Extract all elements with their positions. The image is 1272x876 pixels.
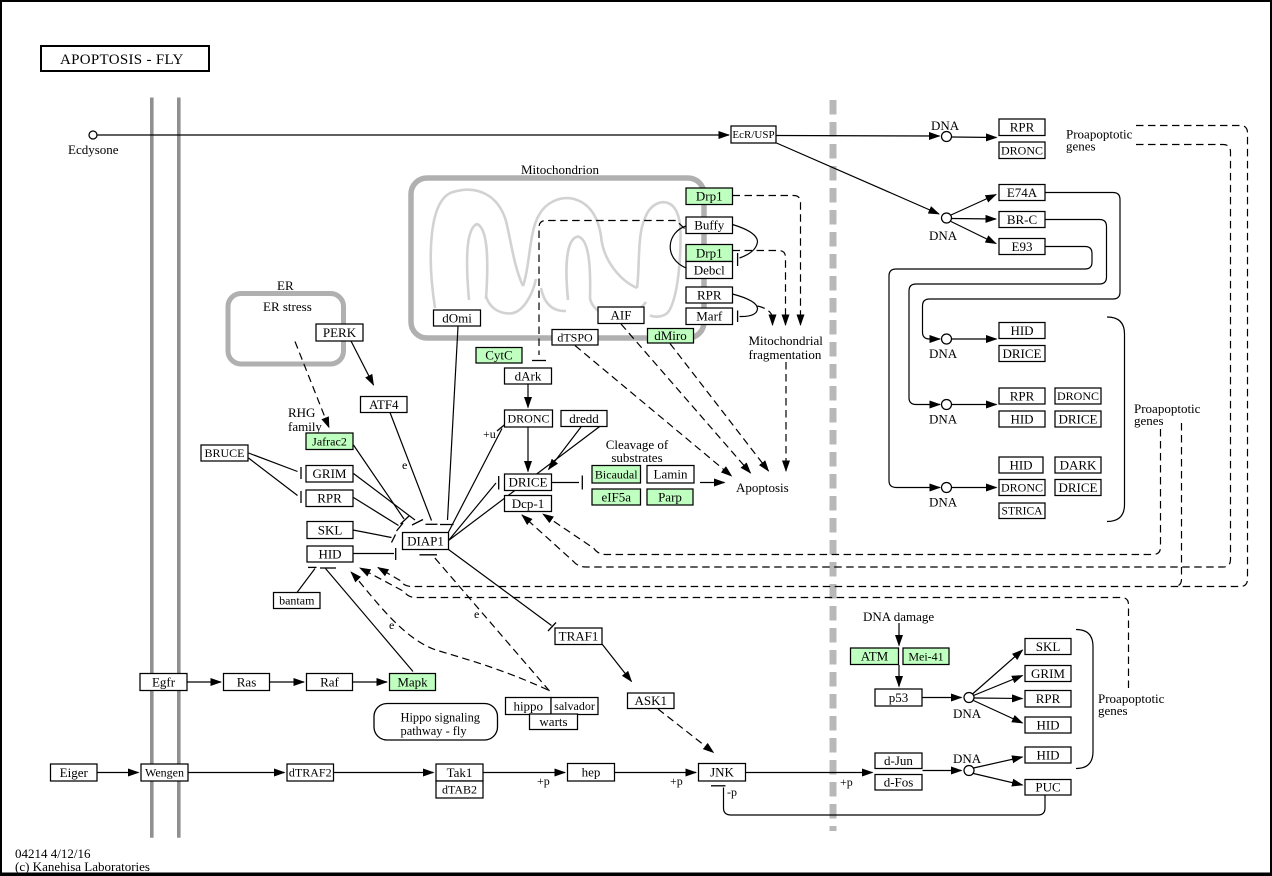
gene box Bicaudal (592, 466, 641, 484)
inhibition tick SKL-DIAP1 (392, 535, 396, 543)
gene box RPR (686, 287, 733, 303)
wire Buffy dashed inhibition of dArk (539, 221, 685, 356)
wire ATM/Mei-41 to p53 (898, 665, 900, 687)
gene box Mapk (390, 674, 436, 691)
svg-text:STRICA: STRICA (1002, 506, 1044, 518)
gene box d-Jun (875, 753, 922, 769)
title box APOPTOSIS - FLY (41, 46, 209, 71)
svg-text:hep: hep (582, 765, 601, 780)
svg-text:E74A: E74A (1007, 185, 1038, 200)
svg-text:Raf: Raf (320, 674, 339, 689)
svg-text:DNA: DNA (929, 346, 958, 361)
wire hep to JNK +p (615, 772, 697, 774)
svg-text:Bicaudal: Bicaudal (595, 467, 638, 481)
gene box dArk (505, 368, 552, 384)
mitochondrion outer membrane (411, 178, 704, 338)
svg-text:+u: +u (483, 427, 496, 441)
svg-text:AIF: AIF (611, 308, 632, 323)
svg-text:APOPTOSIS - FLY: APOPTOSIS - FLY (60, 52, 184, 68)
svg-text:DNA: DNA (929, 412, 958, 427)
wire Wengen to dTRAF2 (188, 772, 285, 774)
wire ASK1 dashed to JNK (658, 709, 714, 753)
svg-text:dOmi: dOmi (442, 310, 472, 325)
gene box DRICE (999, 346, 1045, 362)
gene box DRONC (1055, 388, 1101, 404)
gene box Mei-41 (903, 648, 949, 665)
svg-text:Marf: Marf (696, 309, 723, 324)
svg-text:Parp: Parp (658, 489, 682, 504)
gene box CytC (476, 348, 522, 364)
svg-text:eIF5a: eIF5a (601, 489, 631, 504)
inhibition bar BRUCE-GRIM (300, 467, 302, 479)
svg-text:d-Jun: d-Jun (884, 753, 913, 768)
wire DNA node 6 to HID (974, 701, 1023, 724)
gene box Drp1 (686, 188, 733, 205)
svg-text:Egfr: Egfr (152, 674, 176, 689)
wire DNA node 5 to HID/DARK group (952, 487, 997, 489)
svg-text:JNK: JNK (710, 765, 734, 780)
wire bantam inhibits HID (297, 569, 315, 593)
inhibition bar Buffy-Drp1 (737, 253, 739, 266)
cell membrane bar 1 (150, 98, 154, 838)
gene box hep (568, 764, 615, 782)
node Ecdysone circle (89, 131, 97, 139)
wire DRICE inhibition to substrates (552, 482, 580, 484)
svg-text:RPR: RPR (317, 491, 342, 506)
gene box Raf (307, 674, 353, 691)
svg-text:Lamin: Lamin (654, 467, 688, 482)
feedback loop 2 dashed DRONC top to Dcp-1 (522, 145, 1231, 568)
feedback loop 5 dashed bottom genes to HID (360, 568, 1129, 688)
gene box E93 (999, 239, 1045, 255)
gene box HID (1025, 717, 1071, 733)
svg-text:dArk: dArk (515, 368, 542, 383)
svg-text:BRUCE: BRUCE (204, 446, 244, 460)
gene box RPR (306, 490, 353, 507)
gene box Parp (647, 489, 693, 505)
svg-text:Wengen: Wengen (145, 766, 184, 780)
svg-text:Tak1: Tak1 (447, 765, 473, 780)
wire Eiger to Wengen (97, 772, 139, 774)
wire BRUCE inhibits RPR (249, 458, 298, 496)
svg-text:Mitochondrion: Mitochondrion (521, 162, 599, 177)
wire Tak1 to hep +p (483, 772, 565, 774)
cell membrane bar 2 (177, 98, 181, 838)
gene box Wengen (141, 764, 188, 781)
svg-text:Debcl: Debcl (694, 262, 725, 277)
svg-text:+p: +p (670, 774, 683, 788)
svg-text:warts: warts (539, 714, 567, 729)
gene box ASK1 (628, 693, 675, 709)
wire E74A to DNA node 3 (923, 193, 1121, 340)
wire DNA node 2 to E74A (951, 195, 996, 216)
wire EcR/USP to DNA node 2 (777, 143, 940, 214)
gene box PUC (1025, 780, 1071, 796)
inhibition tick DIAP1-TRAF1 (548, 623, 556, 632)
svg-text:HID: HID (318, 546, 341, 561)
bottom border thick line (0, 873, 1272, 876)
wire ATF4 to DIAP1 e (390, 413, 432, 521)
wire dTSPO dashed to Apoptosis (575, 346, 732, 477)
wire DNA node 2 to BR-C (952, 218, 996, 221)
inhibition bar under HID left (308, 566, 317, 568)
svg-text:PERK: PERK (323, 325, 357, 340)
gene box BRUCE (201, 445, 248, 461)
wire Ras to Raf (270, 681, 305, 683)
svg-text:dTRAF2: dTRAF2 (289, 766, 332, 780)
wire DNA node 6 to GRIM (974, 676, 1023, 696)
wire dTRAF2 to Tak1 (334, 772, 434, 774)
inhibition bar BRUCE-RPR (300, 491, 302, 503)
gene box Jafrac2 (306, 433, 353, 450)
wire dOmi inhibits DIAP1 (448, 327, 459, 521)
gene box DARK (1055, 457, 1101, 473)
gene box RPR (999, 119, 1045, 136)
gene box dTSPO (552, 330, 598, 346)
wire BR-C to DNA node 4 (909, 220, 1107, 405)
svg-text:DNA: DNA (931, 118, 960, 133)
wire AIF dashed to Apoptosis (621, 324, 751, 473)
gene box Egfr (140, 674, 187, 691)
gene box HID (1025, 747, 1071, 763)
gene box eIF5a (592, 489, 641, 505)
svg-text:ER: ER (277, 278, 294, 293)
DNA node 5 circle (942, 483, 952, 493)
wire substrates to Apoptosis (700, 482, 725, 484)
DNA node 1 circle (942, 132, 952, 142)
gene box JNK (699, 764, 746, 782)
gene box hippo (506, 698, 552, 715)
svg-text:Mei-41: Mei-41 (908, 649, 943, 663)
svg-text:EcR/USP: EcR/USP (732, 129, 774, 141)
wire RPR brace dashed to fragmentation (758, 306, 773, 325)
gene box bantam (274, 593, 321, 609)
gene box STRICA (999, 503, 1045, 519)
wire RPR to Marf right brace with inhibition (733, 294, 758, 317)
feedback loop 1 dashed RPR top to HID (378, 126, 1248, 587)
gene box dTAB2 (436, 781, 483, 798)
svg-text:PUC: PUC (1035, 780, 1060, 795)
wire Jafrac2 inhibits DIAP1 (354, 445, 405, 519)
wire E93 to DNA node 5 (889, 247, 1092, 488)
gene box dTRAF2 (287, 764, 334, 781)
bracket proapoptotic genes middle (1107, 317, 1125, 522)
inhibition tick RPR-DIAP1 (397, 523, 404, 531)
svg-text:Ras: Ras (237, 674, 257, 689)
svg-text:DRICE: DRICE (1003, 346, 1042, 361)
inhibition bar PUC-JNK (711, 785, 726, 787)
wire Ecdysone to EcR/USP (98, 134, 730, 136)
svg-text:+p: +p (537, 774, 550, 788)
gene box Ras (224, 674, 270, 691)
wire TRAF1 to ASK1 (602, 644, 632, 682)
wire hippo complex dashed inhibits DIAP1 e (434, 557, 550, 691)
wire DIAP1 inhibits DRICE (449, 483, 497, 541)
wire DIAP1 inhibits DRONC +u (449, 429, 503, 533)
svg-text:Buffy: Buffy (694, 218, 725, 233)
wire Drp1 top dashed to fragmentation (733, 196, 801, 326)
inhibition bar DIAP1-DRICE (498, 476, 500, 490)
svg-text:-p: -p (727, 785, 737, 799)
svg-text:GRIM: GRIM (313, 466, 347, 481)
inhibition tick Jafrac2-DIAP1 (401, 516, 410, 524)
gene box warts (530, 714, 578, 730)
svg-text:dredd: dredd (569, 411, 599, 426)
svg-text:SKL: SKL (1036, 639, 1061, 654)
svg-text:TRAF1: TRAF1 (559, 629, 599, 644)
wire DNA damage to ATM/Mei-41 (898, 623, 900, 646)
wire DNA node 6 to SKL (973, 650, 1023, 694)
gene box HID (307, 546, 353, 562)
wire RPR inhibits DIAP1 (354, 498, 399, 526)
svg-text:Mitochondrialfragmentation: Mitochondrialfragmentation (749, 333, 824, 362)
wire DNA node 3 to HID/DRICE (952, 338, 997, 340)
svg-text:DNA: DNA (953, 751, 982, 766)
wire DIAP1 inhibits TRAF1 (449, 550, 552, 626)
wire DIAP1 to dredd (449, 426, 602, 541)
wire PERK to ATF4 (351, 341, 374, 385)
svg-text:RPR: RPR (697, 287, 722, 302)
wire p53 to DNA node 6 (923, 697, 962, 699)
wire dArk to DRONC (527, 385, 529, 408)
svg-text:Mapk: Mapk (397, 674, 428, 689)
svg-text:HID: HID (1036, 717, 1059, 732)
gene box d-Fos (875, 775, 922, 791)
svg-text:ASK1: ASK1 (634, 693, 667, 708)
inhibition bar RPR-Marf (737, 311, 739, 323)
svg-text:hippo: hippo (513, 698, 543, 713)
wire HID inhibits DIAP1 (353, 553, 394, 555)
svg-text:RPR: RPR (1036, 691, 1061, 706)
svg-text:DRONC: DRONC (507, 412, 549, 426)
wire Drp1-2 dashed to fragmentation (733, 251, 786, 326)
gene box PERK (316, 324, 363, 341)
DNA node 3 circle (942, 334, 952, 344)
svg-text:DRICE: DRICE (1059, 480, 1098, 495)
gene box RPR (1025, 691, 1071, 708)
wire Buffy to Drp1/Debcl complex left brace (670, 226, 686, 268)
wire Raf to Mapk (353, 681, 388, 683)
wire JNK to d-Jun +p (746, 772, 873, 774)
wire d-Jun/d-Fos to DNA node 7 (923, 770, 962, 772)
wire DNA node 4 to RPR/HID group (952, 404, 997, 406)
gene box RPR (999, 388, 1045, 404)
DNA node 7 circle (964, 766, 974, 776)
svg-text:BR-C: BR-C (1007, 212, 1037, 227)
gene box HID (999, 323, 1045, 339)
gene box DRONC (999, 480, 1045, 496)
svg-text:DRICE: DRICE (509, 475, 548, 490)
wire hippo complex dashed to HID (351, 572, 548, 690)
svg-text:dMiro: dMiro (654, 328, 687, 343)
svg-text:salvador: salvador (554, 699, 595, 713)
inhibition bar HID-DIAP1 (395, 548, 397, 560)
inhibition bar under HID right (320, 567, 336, 569)
wire SKL inhibits DIAP1 (353, 530, 392, 538)
svg-text:d-Fos: d-Fos (884, 775, 914, 790)
gene box dredd (561, 411, 607, 427)
gene box Marf (686, 308, 733, 325)
wire Mapk inhibits HID e (326, 569, 414, 672)
gene box HID (999, 457, 1043, 473)
svg-text:E93: E93 (1012, 239, 1033, 254)
svg-text:(c) Kanehisa Laboratories: (c) Kanehisa Laboratories (15, 859, 150, 874)
svg-text:Ecdysone: Ecdysone (68, 142, 119, 157)
gene box dOmi (434, 310, 481, 326)
wire BRUCE inhibits GRIM (249, 453, 298, 472)
svg-text:Apoptosis: Apoptosis (736, 480, 789, 495)
svg-text:DNA: DNA (929, 495, 958, 510)
svg-text:Drp1: Drp1 (696, 245, 723, 260)
ER rounded box (228, 294, 344, 365)
svg-text:DRONC: DRONC (1057, 389, 1099, 403)
wire EcR/USP to DNA node 1 (777, 135, 940, 138)
hippo signaling pathway map box (374, 704, 498, 741)
gene box DRICE (1055, 411, 1101, 427)
DNA node 6 circle (964, 693, 974, 703)
svg-text:e: e (474, 607, 479, 621)
wire dredd to DRICE (549, 427, 582, 470)
DNA node 4 circle (942, 400, 952, 410)
gene box salvador (551, 698, 598, 715)
svg-text:ER stress: ER stress (263, 299, 312, 314)
wire GRIM inhibits DIAP1 (354, 474, 416, 521)
gene box GRIM (306, 466, 353, 483)
inhibition bar ATF4-DIAP1 (426, 523, 438, 525)
inhibition tick GRIM-DIAP1 (412, 520, 423, 526)
gene box p53 (875, 689, 922, 706)
svg-text:DARK: DARK (1060, 457, 1097, 472)
svg-text:bantam: bantam (279, 594, 315, 608)
svg-text:dTSPO: dTSPO (557, 330, 593, 344)
gene box SKL (307, 522, 353, 539)
inhibition bar DRICE-substrates (581, 476, 583, 490)
svg-text:RPR: RPR (1010, 120, 1035, 135)
gene box TRAF1 (555, 628, 602, 645)
gene box dMiro (648, 328, 694, 343)
svg-text:Eiger: Eiger (60, 765, 89, 780)
wire dMiro dashed to Apoptosis (670, 344, 769, 472)
wire DNA node 2 to E93 (951, 222, 996, 244)
gene box BR-C (999, 212, 1045, 228)
svg-text:HID: HID (1010, 411, 1033, 426)
gene box Buffy (686, 217, 733, 234)
wire DNA node 6 to RPR (975, 697, 1023, 700)
wire fragmentation dashed to Apoptosis (785, 362, 787, 471)
svg-text:GRIM: GRIM (1031, 666, 1065, 681)
svg-text:DRICE: DRICE (1059, 411, 1098, 426)
gene box E74A (999, 185, 1045, 201)
svg-text:SKL: SKL (318, 522, 343, 537)
gene box Debcl (686, 262, 733, 279)
svg-text:Drp1: Drp1 (696, 189, 723, 204)
wire Egfr to Ras (188, 681, 222, 683)
gene box Tak1 (436, 764, 483, 781)
gene box ATM (851, 648, 899, 665)
svg-text:HID: HID (1010, 323, 1033, 338)
inhibition tick DIAP1-DRONC (497, 424, 506, 431)
DNA node 2 circle (942, 213, 952, 223)
inhibition bar under DIAP1 (420, 554, 438, 556)
feedback loop 4 dashed middle genes join (1174, 423, 1182, 587)
gene box SKL (1025, 639, 1071, 655)
gene box GRIM (1025, 666, 1071, 682)
gene box ATF4 (361, 397, 408, 413)
svg-text:CytC: CytC (485, 348, 512, 363)
mitochondrion cristae squiggle (431, 190, 681, 317)
svg-text:Dcp-1: Dcp-1 (512, 496, 545, 511)
svg-text:p53: p53 (889, 690, 909, 705)
feedback loop 3 dashed middle genes to Dcp-1 (543, 429, 1161, 555)
wire DNA node 1 to RPR/DRONC (952, 136, 997, 139)
svg-text:DIAP1: DIAP1 (407, 533, 444, 548)
wire Buffy to Drp1/Debcl complex right brace with inhibition (733, 225, 758, 259)
gene box EcR/USP (731, 126, 776, 143)
svg-text:RPR: RPR (1010, 388, 1035, 403)
gene box Dcp-1 (505, 496, 552, 512)
svg-text:DRONC: DRONC (1001, 143, 1043, 157)
svg-text:e: e (402, 458, 407, 472)
wire DNA node 7 to HID (974, 757, 1023, 768)
svg-text:dTAB2: dTAB2 (442, 783, 477, 797)
svg-text:HID: HID (1009, 457, 1032, 472)
svg-text:ATM: ATM (861, 649, 889, 664)
gene box DRONC (999, 142, 1045, 159)
wire DNA node 7 to PUC (974, 774, 1023, 786)
inhibition bar Buffy-dArk (532, 360, 546, 362)
gene box Lamin (647, 466, 694, 484)
svg-text:HID: HID (1036, 747, 1059, 762)
gene box Drp1 (686, 245, 733, 262)
gene box DRICE (1055, 480, 1101, 496)
svg-text:DRONC: DRONC (1001, 481, 1043, 495)
svg-text:DNA: DNA (953, 706, 982, 721)
gene box AIF (598, 307, 644, 324)
svg-text:Jafrac2: Jafrac2 (312, 434, 347, 448)
svg-text:DNA damage: DNA damage (863, 609, 934, 624)
svg-text:+p: +p (840, 775, 853, 789)
wire DRONC to DRICE (527, 427, 529, 472)
bracket proapoptotic genes bottom (1076, 630, 1093, 769)
inhibition bar dOmi-DIAP1 (440, 524, 454, 526)
svg-text:DNA: DNA (929, 228, 958, 243)
wire ER stress dashed to Jafrac2 (295, 342, 329, 428)
wire PUC feedback inhibits JNK -p (724, 788, 1046, 816)
gene box Eiger (51, 764, 98, 781)
gene box DRONC (505, 410, 553, 427)
svg-text:Cleavage ofsubstrates: Cleavage ofsubstrates (606, 437, 669, 465)
svg-text:ATF4: ATF4 (369, 397, 399, 412)
gene box DRICE (505, 474, 552, 491)
gene box DIAP1 (403, 533, 449, 550)
gene box HID (999, 411, 1045, 427)
nuclear membrane dashed divider (830, 100, 837, 831)
